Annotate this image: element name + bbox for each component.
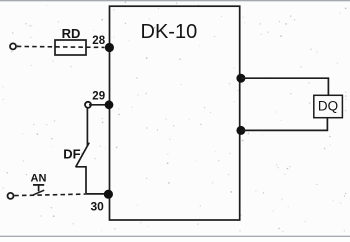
wire dashed: terminal to node 28 bbox=[17, 46, 105, 47]
switch DF blade bbox=[76, 143, 90, 168]
svg-text:DF: DF bbox=[63, 147, 80, 162]
terminal (bottom-left) bbox=[8, 193, 14, 199]
fuse RD bbox=[55, 40, 86, 55]
svg-text:28: 28 bbox=[92, 35, 105, 47]
node (box right, lower) bbox=[236, 126, 245, 135]
wire: pivot to node 29 bbox=[89, 104, 106, 106]
switch pivot circle bbox=[85, 102, 91, 108]
relay box DK-10 bbox=[110, 6, 240, 220]
pushbutton AN contact blade bbox=[33, 190, 44, 195]
page top edge line bbox=[0, 0, 350, 2]
wire: blade to node 30 bbox=[76, 167, 108, 194]
node 29 bbox=[105, 100, 114, 109]
svg-text:RD: RD bbox=[62, 26, 81, 41]
pushbutton AN actuator bar bbox=[33, 184, 44, 186]
pushbutton AN stem bbox=[38, 185, 40, 192]
page bottom edge line bbox=[0, 235, 350, 237]
svg-text:29: 29 bbox=[92, 90, 105, 102]
svg-text:DK-10: DK-10 bbox=[141, 21, 198, 43]
svg-text:30: 30 bbox=[91, 199, 105, 213]
svg-text:DQ: DQ bbox=[318, 99, 338, 114]
wire dashed: terminal to switch corner bbox=[14, 194, 85, 196]
node 30 bbox=[104, 190, 113, 199]
terminal (top-left) bbox=[10, 43, 16, 49]
wire: lower node to DQ bottom bbox=[241, 118, 328, 131]
node 28 bbox=[105, 43, 114, 52]
node (box right, upper) bbox=[236, 74, 245, 83]
wire: upper node to DQ top bbox=[241, 78, 329, 95]
svg-text:AN: AN bbox=[31, 173, 47, 185]
wire: pivot stub down bbox=[86, 108, 88, 146]
coil DQ bbox=[314, 95, 343, 117]
